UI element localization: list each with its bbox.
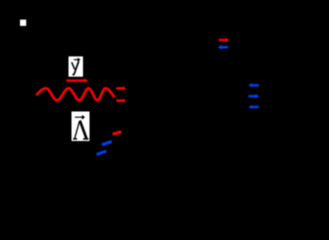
blue arrow column top (left): [248, 83, 258, 88]
blue dash 1 on diagonal: [102, 141, 112, 144]
blue arrow column middle (right): [248, 94, 259, 99]
blue arrow column bottom (left): [248, 105, 258, 110]
photon momentum arrow (red, right): [66, 78, 88, 83]
white bullet square: [20, 20, 26, 26]
blue left arrow (legend pair bottom): [218, 45, 228, 50]
photon label box (gamma vector): [69, 56, 84, 76]
blue dash 2 on diagonal: [97, 151, 107, 155]
red dash on diagonal (Lambda direction): [113, 132, 122, 135]
red right arrow (legend pair top): [219, 38, 230, 43]
small red arrow upper (right of wave): [116, 86, 126, 90]
Lambda label box (Lambda vector): [72, 112, 90, 142]
small red arrow lower (right of wave): [116, 99, 126, 103]
photon wavy line (red): [37, 88, 114, 100]
